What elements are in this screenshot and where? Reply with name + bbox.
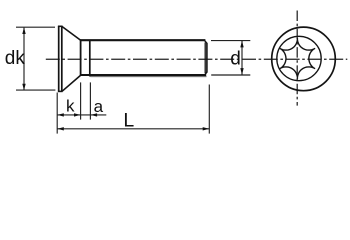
left extension line (head face, for k and L) — [56, 93, 58, 134]
d bottom extension line — [211, 74, 250, 76]
end face — [206, 43, 208, 72]
dk top arrow — [22, 27, 25, 34]
vertical centerline of head top view — [296, 11, 298, 106]
screw head rim line — [61, 26, 63, 91]
svg-text:d: d — [230, 48, 241, 69]
L left arrow — [57, 127, 63, 130]
thin thread line under shaft — [90, 76, 206, 78]
main horizontal centerline — [46, 58, 348, 60]
dk dimension line — [23, 28, 25, 91]
head top edge — [58, 25, 63, 27]
dk bottom extension line — [16, 89, 55, 91]
dk bottom arrow — [22, 84, 25, 91]
d top extension line — [211, 40, 250, 42]
d dimension line — [241, 41, 243, 75]
k left arrow — [57, 113, 63, 116]
screw head flat face — [58, 26, 60, 91]
L dimension line — [57, 128, 209, 130]
shaft top edge — [80, 39, 205, 41]
cone end vertical (head/shaft junction) — [80, 40, 82, 75]
L right extension line — [208, 85, 210, 134]
dk top extension line — [16, 26, 55, 28]
svg-text:a: a — [94, 97, 104, 116]
extension line from cone end — [80, 82, 82, 119]
L right arrow — [203, 127, 209, 130]
svg-text:dk: dk — [5, 48, 26, 69]
a right arrow — [91, 113, 97, 116]
k right arrow — [74, 113, 80, 116]
svg-text:k: k — [66, 97, 75, 116]
countersink cone bottom edge — [62, 75, 81, 91]
k and a dimension line — [57, 114, 106, 116]
shaft bottom edge — [80, 74, 206, 76]
outer circle of head (top view) — [272, 27, 336, 91]
thread start vertical on shaft — [89, 41, 91, 77]
head bottom edge — [58, 90, 63, 92]
extension line from thread start — [89, 82, 91, 119]
torx star recess — [280, 38, 315, 79]
end bottom chamfer diagonal — [204, 72, 207, 75]
countersink cone top edge — [62, 27, 81, 41]
inner recess circle — [277, 36, 321, 80]
d bottom arrow — [240, 68, 243, 75]
end top chamfer diagonal — [204, 40, 207, 43]
end chamfer line — [204, 42, 206, 73]
svg-text:L: L — [123, 110, 134, 132]
d top arrow — [240, 41, 243, 48]
